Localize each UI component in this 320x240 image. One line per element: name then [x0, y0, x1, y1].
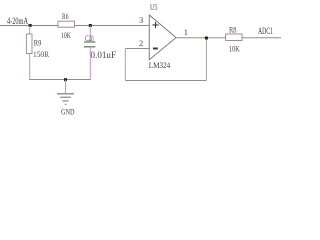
resistor R6 — [58, 21, 75, 27]
svg-text:R8: R8 — [229, 24, 237, 34]
svg-text:R6: R6 — [62, 11, 69, 21]
wire pin2 — [125, 48, 149, 50]
wire feedback left vertical — [124, 49, 126, 81]
resistor R9 — [26, 34, 32, 54]
svg-text:LM324: LM324 — [149, 60, 171, 70]
wire C20 bottom lead — [89, 47, 91, 80]
wire C20 top lead — [89, 26, 91, 42]
svg-text:150R: 150R — [33, 49, 49, 59]
svg-text:U5: U5 — [150, 2, 158, 12]
resistor R8 — [226, 34, 243, 41]
svg-text:2: 2 — [139, 38, 143, 48]
node output junction — [205, 37, 208, 40]
wire feedback right vertical — [205, 38, 207, 81]
wire R6 to opamp pin3 — [75, 25, 150, 27]
node A junction — [29, 24, 32, 27]
node B junction — [89, 24, 92, 27]
wire bottom ground rail — [29, 79, 91, 81]
svg-text:3: 3 — [139, 15, 143, 25]
wire R9 bottom lead — [29, 54, 31, 80]
svg-text:4-20mA: 4-20mA — [7, 17, 28, 27]
svg-text:10K: 10K — [229, 43, 241, 53]
op-amp U5 — [149, 15, 176, 60]
svg-text:R9: R9 — [34, 38, 42, 48]
wire ground stem — [65, 80, 67, 94]
plus input mark — [152, 22, 158, 28]
ground — [57, 94, 74, 105]
wire R9 top lead — [29, 26, 31, 35]
svg-text:10K: 10K — [61, 30, 72, 40]
minus input mark — [153, 48, 158, 50]
wire R8 to ADC1 — [242, 37, 281, 39]
node ground junction — [64, 78, 67, 81]
svg-text:1: 1 — [184, 27, 188, 37]
wire input segment — [0, 25, 58, 27]
svg-text:0.01uF: 0.01uF — [91, 50, 117, 60]
svg-text:GND: GND — [61, 107, 75, 116]
wire opamp output — [176, 37, 226, 39]
wire feedback bottom — [125, 80, 206, 82]
svg-text:ADC1: ADC1 — [258, 26, 273, 36]
